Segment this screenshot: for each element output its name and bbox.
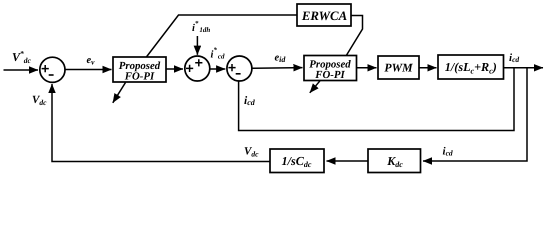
svg-text:ev: ev bbox=[87, 55, 96, 66]
wire: output i_cd bbox=[504, 67, 544, 69]
block first Proposed FO-PI bbox=[113, 57, 166, 82]
tuning arrow out of second FO-PI bbox=[310, 81, 320, 93]
wire: outer feedback drop bbox=[423, 68, 527, 161]
svg-text:PWM: PWM bbox=[384, 60, 413, 74]
wire: ERWCA right line into second FO-PI bbox=[346, 16, 363, 57]
tuning arrow out of first FO-PI bbox=[113, 83, 126, 103]
block K_dc bbox=[368, 149, 421, 173]
wire: first FO-PI to summing junction 2 bbox=[166, 68, 183, 70]
wire: ERWCA left line + diagonal into first FO-PI bbox=[146, 15, 297, 58]
wire: i*cd to summing junction 3 bbox=[210, 68, 225, 70]
block second Proposed FO-PI bbox=[304, 56, 357, 81]
svg-text:FO-PI: FO-PI bbox=[314, 69, 345, 81]
wire: inner feedback i_cd bbox=[239, 68, 514, 131]
summing junction 3 bbox=[227, 56, 252, 81]
summing junction 2 bbox=[185, 56, 210, 81]
summing junction 1 bbox=[40, 57, 65, 82]
block 1/(sLc+Rc) bbox=[438, 55, 504, 79]
block ERWCA bbox=[297, 4, 351, 26]
svg-text:ERWCA: ERWCA bbox=[301, 9, 348, 23]
svg-text:FO-PI: FO-PI bbox=[124, 70, 155, 82]
wire: PWM to plant block bbox=[419, 67, 437, 69]
wire: second FO-PI to PWM bbox=[357, 67, 377, 69]
block PWM bbox=[378, 56, 419, 79]
wire: K_dc to 1/sC_dc bbox=[327, 160, 369, 162]
wire: outer feedback V_dc up into summing junction 1 bbox=[52, 84, 270, 162]
svg-text:eid: eid bbox=[275, 53, 287, 64]
block 1/sC_dc bbox=[270, 149, 324, 173]
wire: input V*dc to summing junction bbox=[4, 69, 39, 71]
wire: i*1dh arrow down into summing junction 2 bbox=[196, 36, 198, 55]
wire: e_v to first FO-PI bbox=[65, 69, 112, 71]
wire: e_id to second FO-PI bbox=[252, 67, 303, 70]
